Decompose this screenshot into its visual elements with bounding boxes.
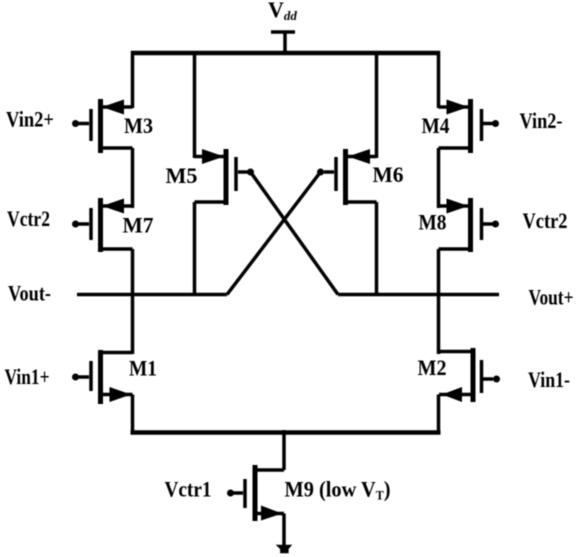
wire M6 drain to Vout+ — [375, 202, 379, 296]
wire Vdd rail — [131, 51, 440, 56]
svg-text:M1: M1 — [129, 356, 157, 381]
svg-text:M6: M6 — [373, 162, 404, 187]
wire M2 source to bottom rail — [437, 395, 441, 433]
wire M8 drain to Vout+ node and M2 drain — [437, 249, 441, 354]
svg-text:Vctr1: Vctr1 — [165, 477, 212, 502]
wire M9 source to ground — [282, 514, 286, 547]
svg-text:M3: M3 — [124, 113, 153, 138]
wire bottom tail rail — [131, 430, 441, 435]
wire rail to M4 source — [437, 51, 441, 108]
svg-text:Vctr2: Vctr2 — [523, 208, 568, 233]
transistor M2 — [439, 348, 500, 402]
wire cross-couple M6 gate to Vout- — [227, 172, 321, 295]
wire M7 drain to Vout- node and M1 drain — [131, 249, 135, 354]
wire rail to M3 source — [131, 51, 135, 108]
svg-text:Vout+: Vout+ — [529, 285, 574, 310]
svg-text:M4: M4 — [422, 113, 450, 138]
transistor M8 — [439, 198, 500, 252]
wire M5 drain to Vout- — [193, 202, 197, 296]
transistor M4 — [439, 99, 500, 153]
svg-text:M8: M8 — [419, 210, 447, 235]
node Vout- line — [77, 293, 227, 297]
svg-text:Vin2-: Vin2- — [520, 108, 563, 133]
wire rail to M5 source — [193, 51, 197, 158]
wire M1 source to bottom rail — [131, 395, 135, 433]
wire cross-couple M5 gate to Vout+ — [251, 172, 339, 295]
svg-text:M9 (low VT): M9 (low VT) — [285, 477, 391, 503]
wire M4 drain to M8 source — [437, 148, 441, 208]
wire rail to M6 source — [375, 51, 379, 158]
svg-text:M2: M2 — [418, 355, 447, 380]
ground — [276, 545, 293, 553]
svg-text:Vctr2: Vctr2 — [7, 206, 50, 231]
svg-text:Vdd: Vdd — [268, 0, 297, 23]
svg-text:Vin1-: Vin1- — [528, 367, 570, 392]
transistor M9 — [227, 465, 284, 521]
svg-text:Vout-: Vout- — [8, 281, 51, 306]
transistor M5 — [195, 149, 255, 205]
transistor M3 — [72, 99, 133, 153]
node Vout+ line — [338, 293, 499, 297]
wire M3 drain to M7 source — [131, 148, 135, 208]
svg-text:M5: M5 — [166, 163, 198, 188]
wire tail rail to M9 drain — [282, 430, 286, 470]
Vdd supply T-symbol — [271, 32, 295, 55]
svg-text:Vin2+: Vin2+ — [6, 107, 54, 132]
svg-text:Vin1+: Vin1+ — [5, 364, 50, 389]
transistor M6 — [317, 149, 377, 205]
svg-text:M7: M7 — [123, 213, 154, 238]
transistor M7 — [72, 198, 133, 252]
transistor M1 — [72, 350, 133, 404]
